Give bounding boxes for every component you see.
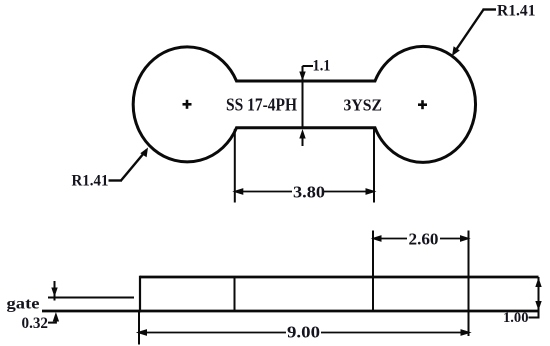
side view divider line 1 (234, 277, 236, 311)
svg-text:1.00: 1.00 (503, 310, 529, 326)
leader R1.41 left: diagonal (121, 150, 147, 181)
side view divider / 2.60 left extension (372, 231, 374, 312)
dimension 1.1 down arrowhead at gauge top edge (299, 72, 305, 82)
dimension 9.00 line left segment (139, 332, 286, 334)
svg-text:9.00: 9.00 (287, 323, 320, 342)
dimension 3.80 left extension line (234, 129, 236, 203)
gate dimension down arrowhead (51, 288, 57, 298)
dimension 3.80 line left segment (236, 191, 293, 193)
gate leader line (48, 297, 134, 299)
dimension 3.80 right arrowhead (366, 188, 377, 195)
gate dimension upper tail (54, 281, 56, 301)
leader R1.41 right: arrowhead on circle (452, 46, 460, 56)
side view divider / 2.60 right + 9.00 right extension (468, 231, 470, 337)
dimension 9.00 line right segment (321, 332, 469, 334)
dimension 1.00 down arrowhead (535, 301, 541, 311)
dimension 9.00 left extension line (138, 311, 140, 345)
dimension 1.00 up arrowhead (535, 278, 541, 288)
svg-text:SS 17-4PH: SS 17-4PH (226, 95, 297, 115)
dimension 2.60 right arrowhead (460, 235, 471, 242)
dimension 1.1 tick to text (303, 65, 314, 67)
side view bottom edge (42, 310, 539, 313)
svg-text:3.80: 3.80 (293, 183, 325, 202)
side view top edge (140, 276, 539, 279)
svg-text:R1.41: R1.41 (72, 173, 109, 190)
dimension 0.32 up arrowhead (53, 312, 59, 322)
dimension 9.00 right arrowhead (461, 329, 472, 336)
center mark right circle (418, 100, 427, 109)
leader R1.41 right: diagonal (454, 10, 484, 54)
dimension 1.1 up arrowhead at gauge bottom edge (299, 129, 305, 139)
dimension 1.00 tick to text (529, 317, 540, 319)
dimension 2.60 line left segment (373, 238, 407, 240)
dimension 1.1 lower tail (302, 136, 304, 146)
dimension 3.80 left arrowhead (232, 188, 243, 195)
svg-text:0.32: 0.32 (22, 315, 49, 332)
dimension 1.00 vertical line (538, 277, 540, 318)
dimension 2.60 left arrowhead (371, 235, 382, 242)
center mark left circle (183, 100, 192, 109)
leader R1.41 left: tick (109, 179, 123, 181)
leader R1.41 left: arrowhead on circle (140, 148, 148, 158)
leader R1.41 right: tick (483, 8, 497, 10)
svg-text:1.1: 1.1 (313, 58, 331, 75)
svg-text:R1.41: R1.41 (497, 3, 536, 20)
svg-text:2.60: 2.60 (409, 230, 439, 249)
dog-bone specimen outline (133, 46, 475, 162)
svg-text:3YSZ: 3YSZ (344, 96, 383, 115)
dimension 3.80 right extension line (373, 129, 375, 203)
dimension 9.00 left arrowhead (136, 329, 147, 336)
dimension 2.60 line right segment (440, 238, 469, 240)
dimension 0.32 tail and tick (48, 318, 56, 323)
svg-text:gate: gate (7, 296, 40, 313)
dimension 1.1 vertical line (302, 66, 304, 128)
side view left edge (139, 276, 141, 313)
dimension 3.80 line right segment (324, 191, 373, 193)
